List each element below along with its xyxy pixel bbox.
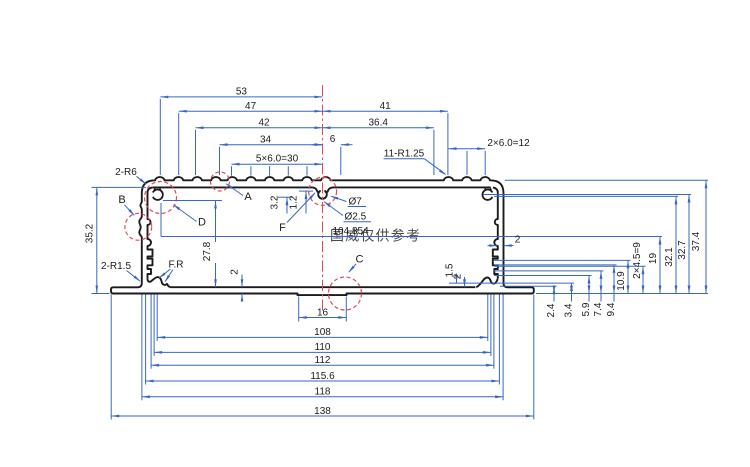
svg-text:2×6.0=12: 2×6.0=12 [487,138,530,149]
svg-text:2.4: 2.4 [546,303,557,317]
dimension 115.6 (bottom) [146,380,500,382]
dimension 36.4 (top row 3 right) [323,127,434,129]
dimension 2x6.0=12 (top right) [449,148,486,150]
dimension 2 (floor thickness) [241,275,243,288]
svg-text:3.4: 3.4 [564,303,575,317]
boss F.R left: floor screw channel (wave + cup) [148,277,171,287]
svg-text:115.6: 115.6 [310,371,335,382]
extension line at y=180.3 for right stack [505,179,708,181]
svg-text:16: 16 [317,307,329,318]
svg-text:118: 118 [315,387,331,398]
flange-bottom extension line to right stack [536,293,708,295]
svg-text:138: 138 [314,406,331,417]
extension line at y=270.9 for right stack [494,270,604,272]
svg-text:2: 2 [230,269,241,275]
svg-text:3.2: 3.2 [270,195,281,209]
svg-text:53: 53 [236,87,248,98]
svg-text:5.9: 5.9 [581,302,592,316]
svg-text:6: 6 [330,134,336,145]
wire: profile outer outline with 11-R1.25 top bumps, R6 corners, base flange [111,177,534,295]
svg-text:1.2: 1.2 [289,195,300,209]
dimension 27.8 (inner height) [163,200,222,202]
dimension 41 (top row 2 right) [323,110,448,112]
red detail circle A [211,172,230,191]
svg-text:104.854: 104.854 [333,226,370,237]
svg-text:C: C [356,254,364,266]
dimension 32.1 (right stack) [675,196,677,293]
svg-text:2: 2 [453,273,464,279]
gray watermark text [330,228,421,244]
svg-text:10.9: 10.9 [616,271,627,291]
extension line at y=266.3 for right stack [494,265,646,267]
svg-text:F: F [279,222,286,234]
red detail circle C-circle [329,277,362,310]
svg-text:B: B [118,194,125,206]
svg-text:7.4: 7.4 [593,302,604,316]
dimension 9.4 (right stack) [613,265,615,294]
svg-text:32.1: 32.1 [664,247,675,267]
extension line 104.854 level (19 reference) [161,236,662,238]
dimension 35.2 (left overall height) [96,187,98,293]
extension line at y=275.5 for right stack [494,275,592,277]
extension line at y=260.4 for right stack [494,259,631,261]
svg-text:36.4: 36.4 [368,118,388,129]
svg-text:41: 41 [380,101,392,112]
svg-text:D: D [198,217,206,229]
dimension 2 (floor boss) [464,277,466,287]
dimension 10.9 (right stack) [627,260,629,293]
svg-text:9.4: 9.4 [606,302,617,316]
dimension 34 (top row 4 left) [220,144,323,146]
detail D reference corner line [160,203,162,237]
svg-text:47: 47 [245,101,257,112]
svg-text:2-R1.5: 2-R1.5 [101,261,131,272]
dimension 2×4.5=9 (right stack) [642,266,644,293]
dimension 108 (bottom) [157,336,488,338]
svg-text:11-R1.25: 11-R1.25 [384,149,425,160]
dimension 37.4 (right stack) [705,180,707,293]
dimension 5x6.0=30 (top row 5) [232,163,323,165]
svg-text:112: 112 [315,355,331,366]
svg-text:2-R6: 2-R6 [115,167,137,178]
svg-text:37.4: 37.4 [691,231,702,251]
svg-text:Ø2.5: Ø2.5 [345,212,367,223]
dimension 110 (bottom) [154,351,491,353]
dimension 32.7 (right stack) [688,195,690,294]
svg-text:34: 34 [260,135,272,146]
svg-text:A: A [244,191,252,203]
wire: interior floor line [170,286,475,288]
dimension 1.2 (screw port lip) [299,190,313,192]
dimension 53 (top row 1) [160,96,322,98]
dimension 138 (bottom) [111,415,534,417]
dimension 1.5 (floor boss cup) [456,274,458,284]
dimension 7.4 (right stack) [600,271,602,294]
extension line at y=196.4 for right stack [494,195,678,197]
extension line at y=194.5 for right stack [483,194,691,196]
wire: right inner wall with screw grooves (mirror) [493,187,498,278]
red detail circle D-circle [145,182,177,214]
dimension 118 (bottom) [142,396,503,398]
wire: left inner wall with screw grooves [148,187,153,278]
svg-text:32.7: 32.7 [677,240,688,260]
dimension 3.2 (screw port depth) [278,196,293,198]
svg-text:2×4.5=9: 2×4.5=9 [632,242,643,279]
svg-text:Ø7: Ø7 [349,197,363,208]
dimension 3.4 (right stack) [571,283,573,293]
dimension 19 (right stack) [659,237,661,294]
svg-text:110: 110 [315,342,331,353]
dimension 5.9 (right stack) [588,276,590,294]
dimension 47 (top row 2 left) [179,110,323,112]
boss D: C-shaped screw channel at top-left inner corner [153,189,163,199]
red detail circle F-circle [309,177,337,205]
svg-text:F.R: F.R [169,260,184,271]
extension line at y=283.1 for right stack [449,282,574,284]
extension line at y=264.9 for right stack [494,264,617,266]
dimension 2.4 (right stack) [553,286,555,293]
svg-text:19: 19 [648,253,659,265]
dimension 112 (bottom) [151,364,494,366]
red detail circle B [125,213,152,240]
red centerline (vertical dash-dot through screw port F) [322,85,324,312]
svg-text:108: 108 [314,327,331,338]
svg-text:42: 42 [258,118,270,129]
dimension 6 (top row 4 right, outside arrows) [312,144,323,146]
boss F.R right: floor screw channel (wave + cup, same chirality) [476,277,497,287]
dimension 42 (top row 3 left) [196,127,323,129]
svg-text:35.2: 35.2 [85,223,96,243]
boss: C-shaped screw channel at top-right inner corner (mirror of D) [482,188,492,200]
wire: inner top surface with screw port F (omega boss) at centerline [152,187,490,198]
svg-text:27.8: 27.8 [202,241,213,261]
svg-text:2: 2 [515,235,521,246]
dimension 16 (bottom recess) [299,317,347,319]
dimension 2 (right wall thickness) [488,245,498,247]
svg-text:5×6.0=30: 5×6.0=30 [256,154,299,165]
extension line at y=286.2 for right stack [500,285,557,287]
